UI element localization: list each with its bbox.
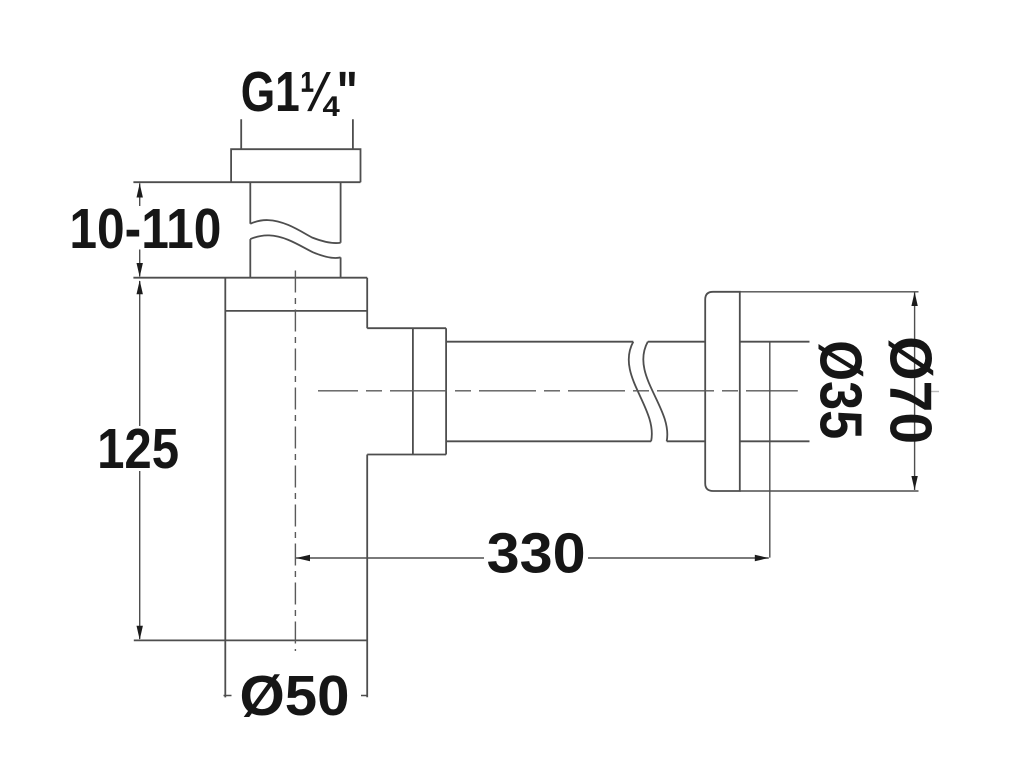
svg-text:Ø35: Ø35: [808, 340, 874, 439]
svg-text:125: 125: [97, 417, 179, 481]
svg-text:10-110: 10-110: [69, 197, 221, 261]
svg-text:330: 330: [487, 522, 586, 586]
svg-text:Ø70: Ø70: [877, 336, 943, 444]
svg-text:Ø50: Ø50: [240, 664, 350, 728]
svg-text:G1¼": G1¼": [241, 60, 358, 124]
